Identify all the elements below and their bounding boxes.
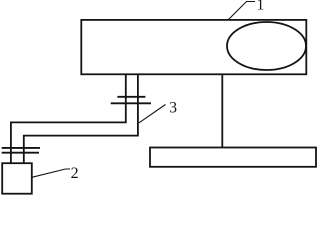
leader line to label 1	[229, 2, 256, 20]
svg-text:1: 1	[257, 0, 265, 14]
small box (item 2)	[2, 163, 32, 194]
stand column	[221, 74, 223, 147]
upper flange tick long	[111, 102, 151, 104]
pipe outer wall (left/top line)	[11, 74, 126, 163]
base rectangle	[150, 148, 316, 167]
leader line to label 2	[32, 169, 70, 177]
svg-text:3: 3	[169, 100, 177, 117]
tank body rectangle (item 1)	[81, 20, 306, 74]
lower flange tick upper	[2, 147, 40, 149]
upper flange tick short	[117, 96, 145, 98]
leader line to label 3	[139, 105, 166, 123]
lower flange tick lower	[2, 152, 39, 154]
pipe inner wall (right/bottom line)	[24, 74, 138, 163]
ellipse inside tank	[227, 22, 306, 70]
svg-text:2: 2	[71, 165, 79, 182]
